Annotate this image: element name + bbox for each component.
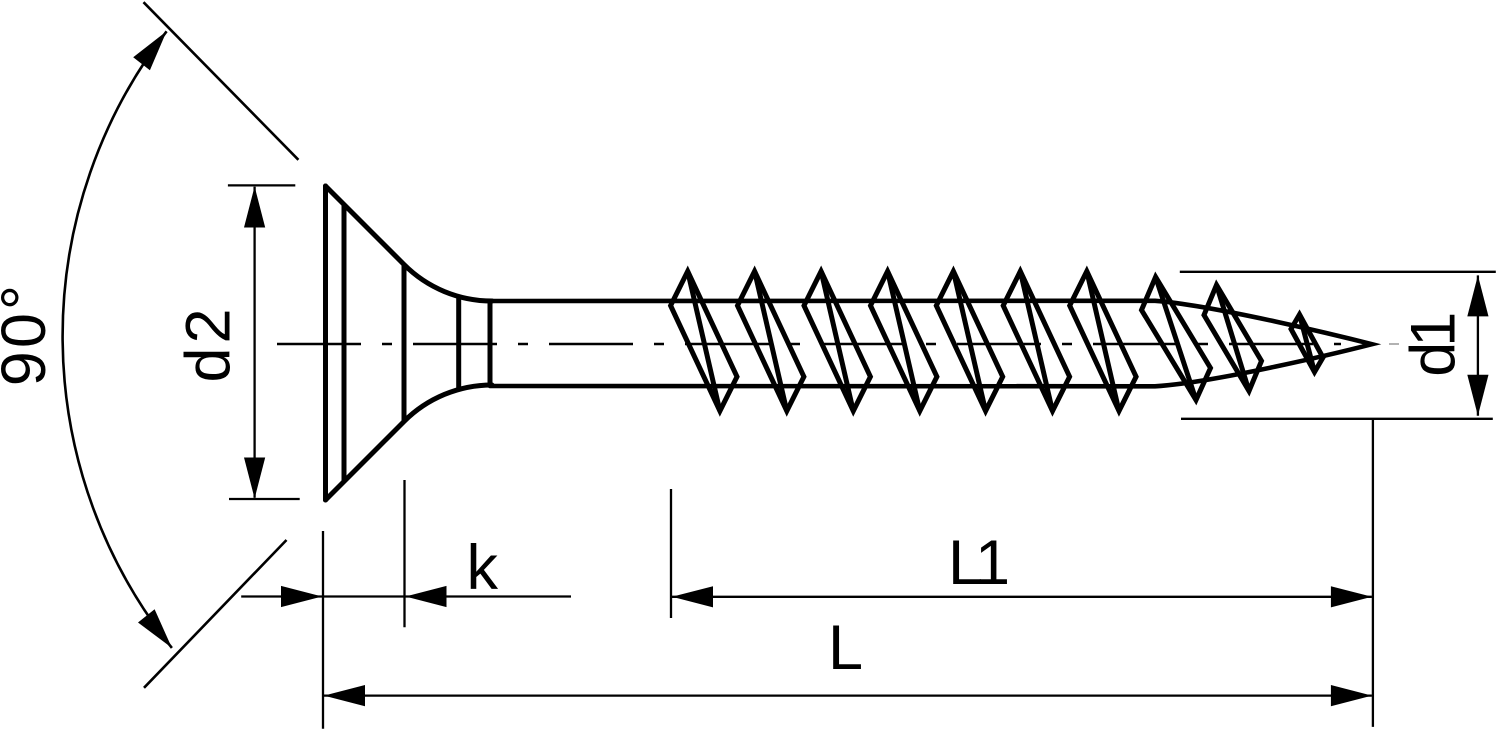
svg-text:L: L <box>828 613 863 683</box>
svg-text:90°: 90° <box>0 282 59 386</box>
svg-text:d2: d2 <box>174 304 244 382</box>
svg-text:k: k <box>467 533 499 603</box>
svg-text:d1: d1 <box>1399 315 1469 377</box>
svg-text:L1: L1 <box>948 528 1007 598</box>
